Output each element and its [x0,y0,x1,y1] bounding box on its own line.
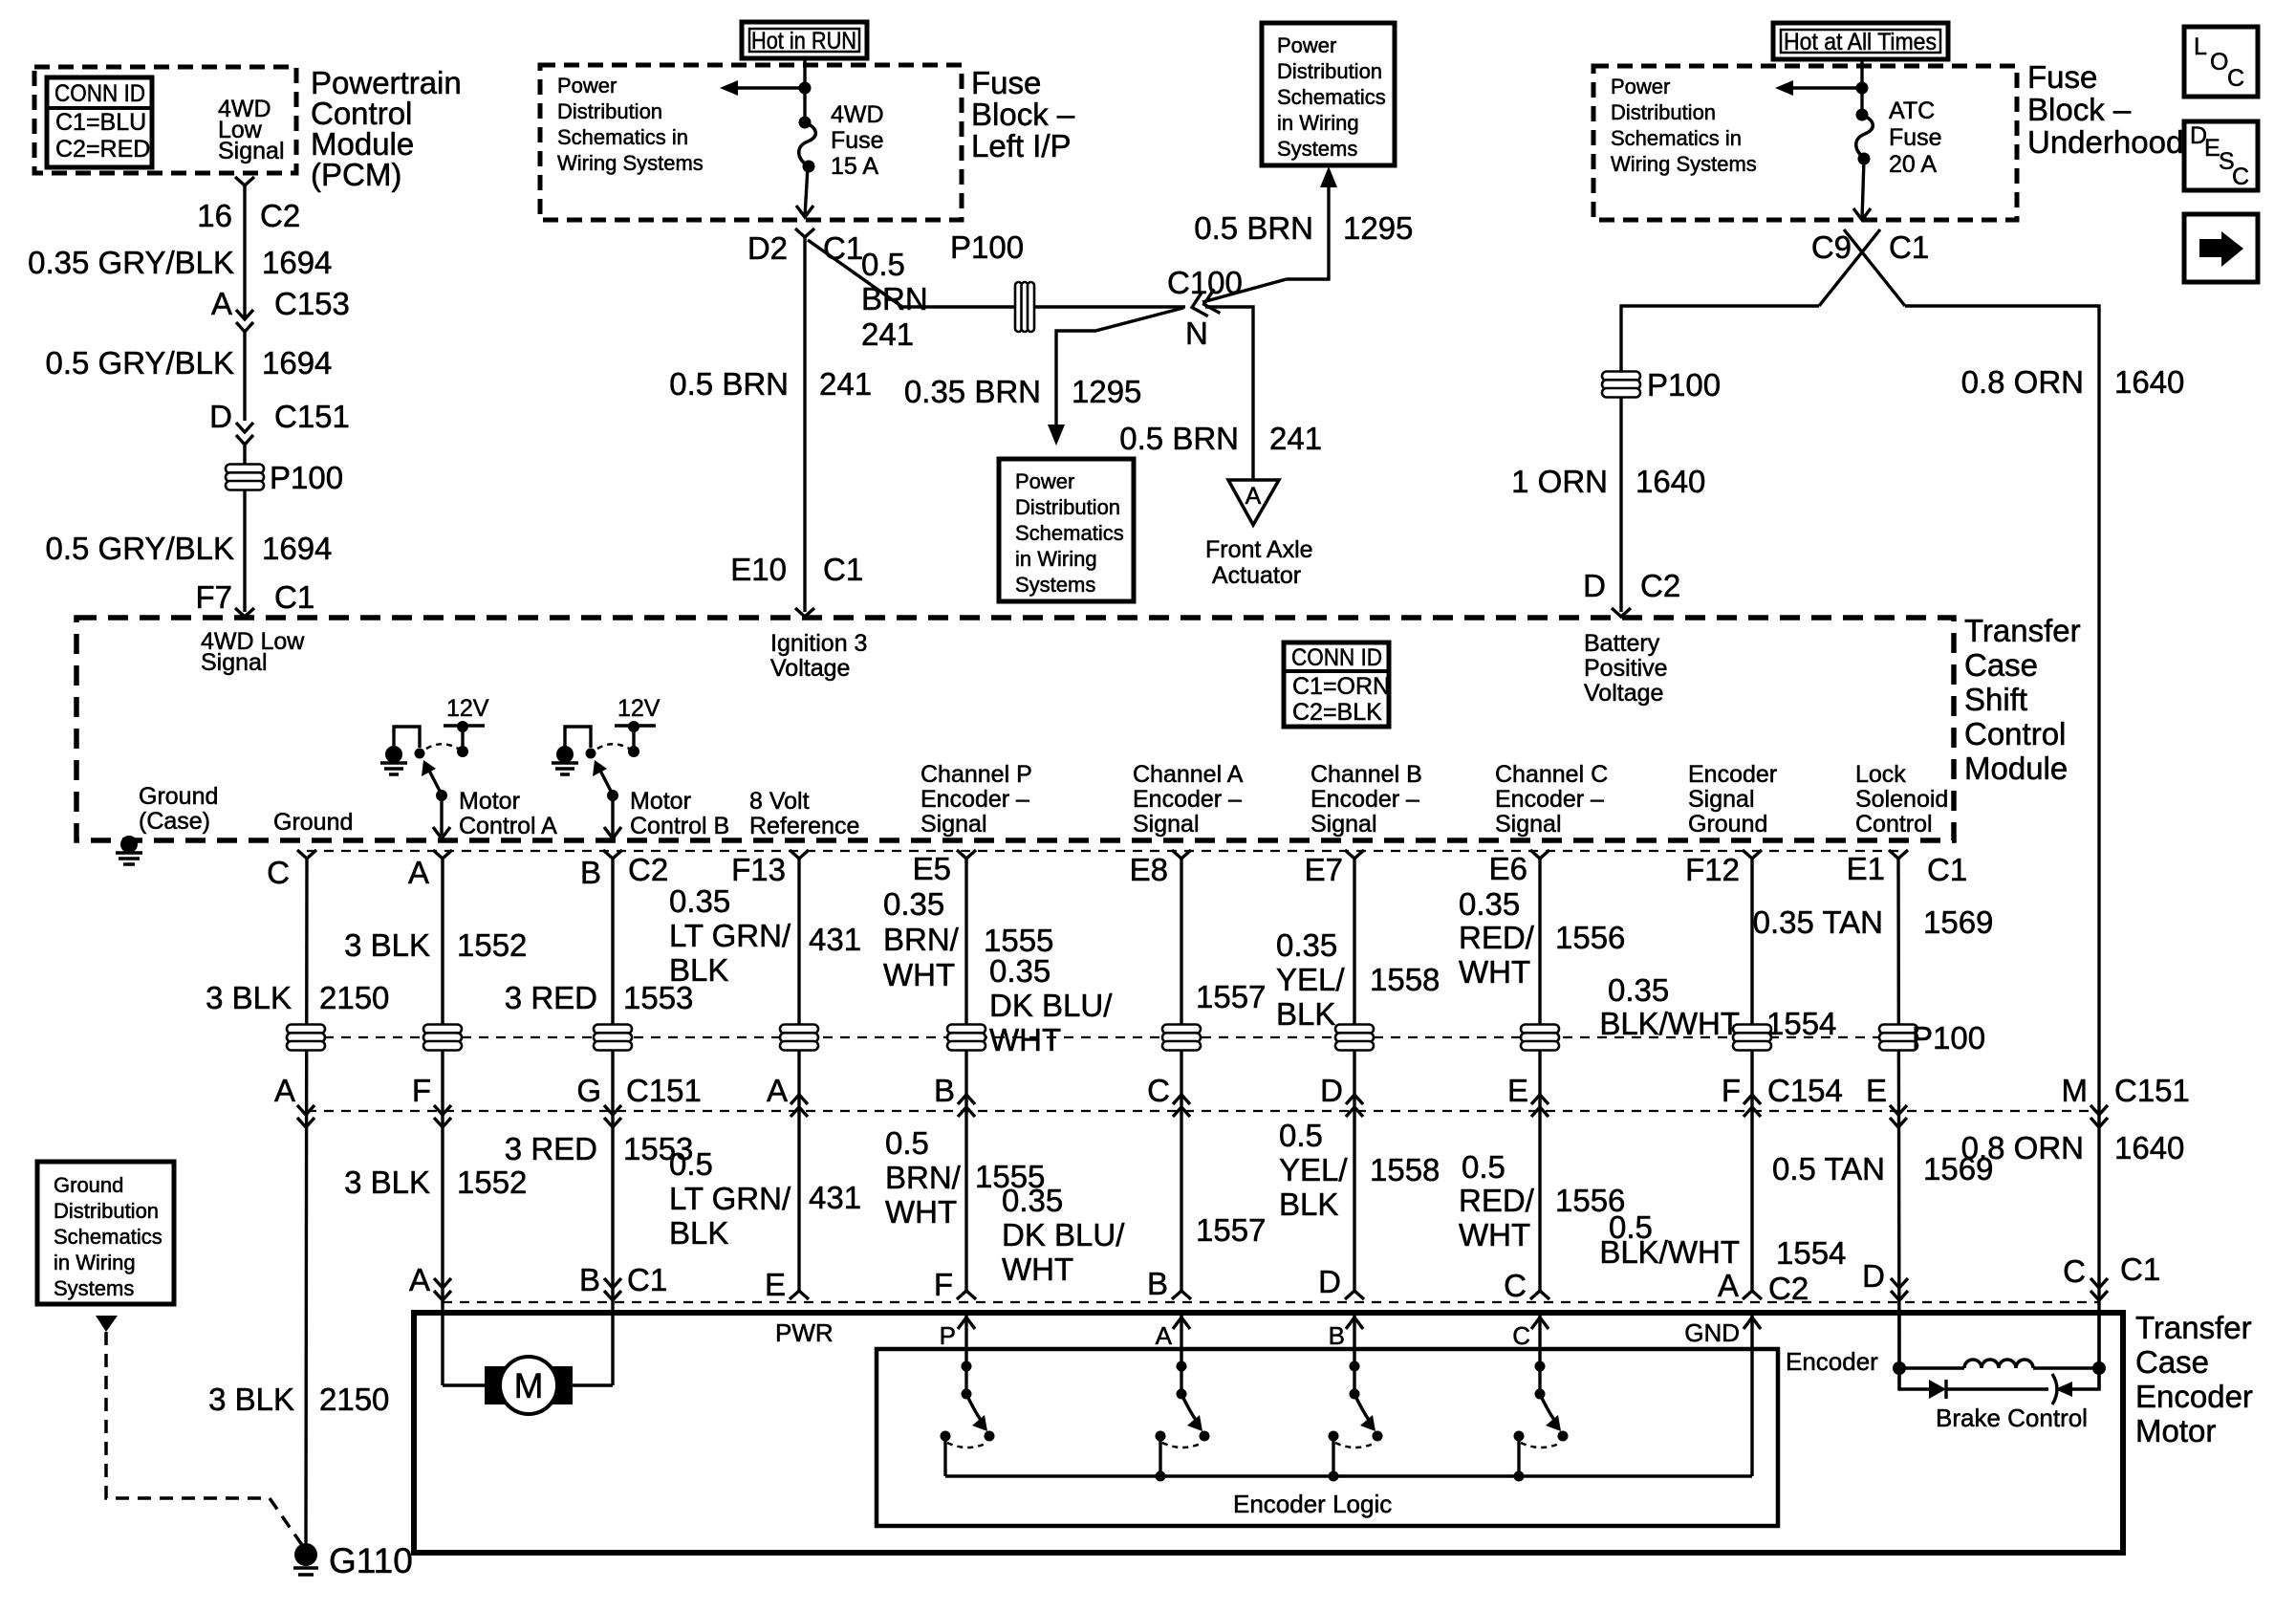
svg-text:P100: P100 [270,460,343,495]
svg-text:BRN/: BRN/ [885,1160,962,1195]
wire motor control B column [611,859,614,1385]
wire 1694 segment 2 [243,332,246,421]
Fuse Block Left I/P dashed box [540,65,962,220]
PCM module dashed box [34,67,296,173]
svg-text:D: D [1318,1264,1341,1299]
svg-text:Encoder: Encoder [2135,1379,2253,1414]
svg-text:BLK/WHT: BLK/WHT [1599,1006,1740,1041]
svg-text:1694: 1694 [262,245,332,280]
svg-text:C: C [1504,1268,1527,1303]
svg-text:C1: C1 [2120,1252,2160,1287]
Hot in RUN box [742,22,867,58]
svg-text:20 A: 20 A [1889,151,1937,178]
CONN ID box (PCM) [47,77,152,167]
module dashed box [76,618,1954,840]
svg-text:Signal: Signal [1310,811,1377,838]
svg-text:E5: E5 [913,851,951,886]
svg-text:Channel C: Channel C [1495,761,1608,788]
svg-text:C1: C1 [627,1262,667,1297]
Fuse Block Underhood dashed box [1593,66,2017,220]
svg-text:B: B [934,1073,955,1108]
svg-text:Distribution: Distribution [1015,495,1120,519]
wire from Hot in RUN [803,58,806,122]
svg-text:C2: C2 [1640,568,1680,603]
svg-text:N: N [1185,316,1208,351]
svg-text:3 BLK: 3 BLK [344,1165,430,1200]
svg-text:Systems: Systems [1015,573,1095,597]
svg-text:Signal: Signal [218,138,285,164]
svg-text:Systems: Systems [1277,137,1357,161]
motor lead A [443,1383,485,1386]
svg-text:1640: 1640 [2114,364,2184,400]
svg-text:1640: 1640 [1635,464,1705,499]
svg-text:Channel P: Channel P [921,761,1032,788]
svg-text:G: G [576,1073,601,1108]
svg-text:0.35: 0.35 [989,953,1051,989]
svg-text:D: D [1583,568,1606,603]
svg-text:0.35 BRN: 0.35 BRN [904,374,1041,409]
svg-text:WHT: WHT [1459,1217,1530,1252]
svg-text:Control B: Control B [630,813,729,839]
front axle actuator triangle [1228,480,1279,525]
svg-text:1694: 1694 [262,345,332,381]
svg-text:Case: Case [1964,647,2038,683]
arrow to power distribution (left) [1784,86,1862,89]
svg-text:Signal: Signal [1133,811,1200,838]
svg-text:Ground: Ground [54,1173,123,1197]
svg-text:8 Volt: 8 Volt [749,788,810,815]
svg-text:Brake Control: Brake Control [1936,1404,2088,1432]
svg-text:D: D [1320,1073,1343,1108]
svg-text:F: F [934,1267,953,1302]
svg-text:3 RED: 3 RED [505,980,597,1015]
svg-text:Signal: Signal [1688,786,1755,813]
svg-text:WHT: WHT [885,1194,957,1230]
wire channel P E5 column [964,859,967,1291]
svg-text:D: D [209,399,232,434]
svg-text:Signal: Signal [921,811,987,838]
svg-text:YEL/: YEL/ [1279,1152,1348,1187]
svg-text:Front Axle: Front Axle [1205,536,1313,563]
svg-text:CONN ID: CONN ID [54,80,145,107]
grommet E5 column [947,1025,986,1051]
grommet F12 column [1733,1025,1771,1051]
svg-text:1557: 1557 [1196,1212,1266,1248]
svg-text:LT GRN/: LT GRN/ [669,918,791,953]
svg-text:E: E [765,1267,786,1302]
junction dot [1856,82,1869,95]
svg-text:RED/: RED/ [1459,920,1535,955]
svg-text:0.8 ORN: 0.8 ORN [1961,1130,2084,1165]
svg-text:241: 241 [861,316,914,352]
LOC box [2184,27,2258,97]
svg-text:Fuse: Fuse [971,65,1041,100]
wire 241 down to E10 [803,237,806,612]
fuse 4WD 15A [799,117,812,129]
svg-text:0.5: 0.5 [669,1146,713,1182]
svg-text:B: B [580,855,601,890]
svg-text:B: B [1147,1266,1168,1301]
svg-text:Module: Module [1964,751,2068,786]
svg-text:0.5: 0.5 [1279,1118,1323,1153]
svg-text:C1: C1 [1927,852,1967,887]
svg-text:2150: 2150 [319,980,389,1015]
svg-text:Ignition 3: Ignition 3 [770,630,867,657]
svg-text:0.35: 0.35 [1608,972,1669,1008]
svg-text:Case: Case [2135,1344,2209,1380]
wire 8V ref F13 column [797,859,800,1291]
wire encoder ground F12 column [1750,859,1753,1291]
svg-text:Reference: Reference [749,813,859,839]
svg-text:F: F [412,1073,431,1108]
svg-text:C2: C2 [260,198,300,233]
svg-text:Battery: Battery [1584,630,1660,657]
svg-text:A: A [211,286,232,321]
svg-text:DK BLU/: DK BLU/ [989,988,1113,1023]
svg-text:in Wiring: in Wiring [54,1251,136,1274]
svg-text:C151: C151 [2114,1073,2190,1108]
svg-text:0.5: 0.5 [861,247,905,282]
grommet P100 (brn wire) [1015,282,1034,332]
motor lead B [573,1383,613,1386]
svg-text:E6: E6 [1489,851,1527,886]
svg-text:1557: 1557 [1196,979,1266,1014]
svg-text:in Wiring: in Wiring [1277,111,1359,135]
svg-text:BLK: BLK [669,1215,728,1251]
svg-text:C1: C1 [823,230,863,266]
arrow to power distribution (left) [728,86,805,89]
svg-text:A: A [409,1262,430,1297]
svg-text:Positive: Positive [1584,655,1668,682]
svg-text:B: B [579,1262,600,1297]
ground G110 [294,1543,317,1566]
svg-text:0.35: 0.35 [883,886,944,922]
svg-text:Schematics in: Schematics in [557,125,688,149]
svg-text:P100: P100 [1912,1020,1985,1056]
D lead down [1897,1313,1900,1389]
grommet F13 column [780,1025,818,1051]
Ground Distribution box [37,1162,174,1304]
svg-text:1640: 1640 [2114,1130,2184,1165]
svg-text:1295: 1295 [1343,210,1413,246]
svg-text:C1: C1 [1889,229,1929,265]
Hot at All Times box [1773,23,1948,59]
grommet P100 (battery wire) [1619,359,1622,612]
svg-text:(Case): (Case) [139,808,210,835]
svg-text:12V: 12V [617,695,661,722]
svg-text:in Wiring: in Wiring [1015,547,1097,571]
CONN ID box (module) [1284,642,1389,727]
svg-text:Control A: Control A [459,813,557,839]
svg-text:1552: 1552 [457,1165,527,1200]
svg-text:BLK: BLK [1279,1186,1338,1222]
connector C100 chevrons [1189,289,1220,319]
svg-text:Control: Control [1855,811,1933,838]
branch up to power distribution [1202,186,1329,302]
branch right to 0.8 ORN [1905,306,2099,1368]
svg-text:M: M [2062,1073,2089,1108]
grommet E1 column [1879,1025,1917,1051]
splice C9 / C1 X symbol [1819,229,1905,306]
svg-text:0.5: 0.5 [885,1125,929,1161]
svg-text:1694: 1694 [262,531,332,566]
svg-text:Block –: Block – [971,97,1075,132]
svg-text:(PCM): (PCM) [311,157,401,192]
svg-text:Motor: Motor [630,788,691,815]
power distribution solid box (top) [1262,23,1395,165]
wire from Hot at All Times [1860,59,1863,115]
thin dashed connector line [307,850,1898,852]
svg-text:Hot at All Times: Hot at All Times [1784,29,1937,55]
svg-text:A: A [274,1073,295,1108]
svg-text:Ground: Ground [139,783,218,810]
svg-text:Distribution: Distribution [1277,59,1382,83]
svg-text:E10: E10 [730,552,787,587]
svg-text:YEL/: YEL/ [1276,962,1345,997]
motor M symbol [485,1366,505,1404]
svg-text:C1=ORN: C1=ORN [1292,673,1390,700]
brake control coil path [1893,1361,1906,1375]
svg-text:Solenoid: Solenoid [1855,786,1948,813]
svg-text:0.5 BRN: 0.5 BRN [669,366,789,402]
wire from fuse to D2 [805,166,808,217]
svg-text:PWR: PWR [775,1318,834,1347]
svg-text:1552: 1552 [457,927,527,963]
wire channel A E8 column [1180,859,1182,1291]
svg-text:Ground: Ground [1688,811,1767,838]
svg-text:1 ORN: 1 ORN [1511,464,1608,499]
svg-text:F: F [1722,1073,1741,1108]
svg-text:WHT: WHT [1002,1252,1073,1287]
svg-text:Transfer: Transfer [1964,613,2081,648]
svg-text:Power: Power [1611,75,1670,98]
wire channel B E7 column [1353,859,1355,1291]
svg-text:Transfer: Transfer [2135,1310,2252,1345]
svg-text:1295: 1295 [1072,374,1141,409]
svg-text:0.8 ORN: 0.8 ORN [1961,364,2084,400]
svg-text:C: C [2063,1253,2086,1289]
svg-text:1554: 1554 [1776,1235,1846,1271]
svg-text:C154: C154 [1767,1073,1843,1108]
svg-text:0.5 GRY/BLK: 0.5 GRY/BLK [45,345,234,381]
svg-text:Encoder –: Encoder – [1495,786,1604,813]
fuse ATC 20A [1856,109,1869,121]
svg-text:1554: 1554 [1766,1006,1836,1041]
junction dot [799,82,812,95]
svg-text:Ground: Ground [273,809,353,836]
branch down 0.35 BRN 1295 [1056,308,1183,427]
brake control diode path [1899,1368,1929,1389]
svg-text:0.5 GRY/BLK: 0.5 GRY/BLK [45,531,234,566]
svg-text:L: L [2194,33,2207,60]
svg-text:C1: C1 [274,579,314,615]
svg-text:C2: C2 [628,852,668,887]
svg-text:D: D [1862,1258,1885,1294]
svg-text:0.35 GRY/BLK: 0.35 GRY/BLK [28,245,234,280]
svg-text:16: 16 [197,198,232,233]
wire lock solenoid E1 column [1898,859,1899,1368]
svg-text:E8: E8 [1130,852,1168,887]
svg-text:BRN: BRN [861,281,928,316]
svg-text:Distribution: Distribution [557,99,662,123]
svg-text:A: A [1718,1268,1739,1303]
svg-text:0.5 BRN: 0.5 BRN [1119,421,1239,456]
svg-text:Control: Control [1964,716,2066,751]
svg-text:O: O [2210,49,2228,76]
svg-text:1569: 1569 [1923,904,1993,940]
svg-text:Distribution: Distribution [1611,100,1716,124]
svg-text:P: P [940,1321,956,1350]
svg-text:Block –: Block – [2027,92,2132,127]
encoder logic bus [945,1474,1752,1477]
svg-text:Signal: Signal [201,649,268,676]
svg-text:Actuator: Actuator [1212,562,1301,589]
arrow below ground distribution box [96,1316,118,1332]
svg-text:C151: C151 [626,1073,702,1108]
dashed ground path [106,1332,302,1545]
svg-text:Channel B: Channel B [1310,761,1422,788]
svg-text:Power: Power [1015,469,1074,493]
svg-text:F13: F13 [731,852,786,887]
svg-text:BLK/WHT: BLK/WHT [1599,1234,1740,1270]
svg-text:Schematics: Schematics [1277,85,1386,109]
svg-text:E1: E1 [1847,851,1885,886]
svg-text:WHT: WHT [989,1022,1061,1057]
svg-text:Shift: Shift [1964,682,2027,717]
svg-text:Wiring Systems: Wiring Systems [557,151,704,175]
svg-text:D2: D2 [747,230,788,266]
svg-text:A: A [1245,483,1262,510]
svg-text:C: C [267,855,290,890]
grommet C column [287,1025,325,1051]
svg-text:Motor: Motor [459,788,520,815]
svg-text:0.35: 0.35 [669,883,730,919]
svg-text:1556: 1556 [1555,920,1625,955]
branch wire 241 to P100 [808,240,1185,307]
svg-text:12V: 12V [446,695,489,722]
svg-text:431: 431 [809,922,861,957]
svg-text:C2=RED: C2=RED [55,136,150,163]
svg-text:Signal: Signal [1495,811,1562,838]
svg-text:0.5 TAN: 0.5 TAN [1772,1151,1885,1186]
svg-text:15 A: 15 A [831,153,878,180]
svg-text:Distribution: Distribution [54,1199,159,1223]
svg-text:DK BLU/: DK BLU/ [1002,1217,1125,1252]
svg-text:RED/: RED/ [1459,1183,1535,1218]
svg-text:P100: P100 [1647,367,1721,403]
branch left to 1 ORN [1621,306,1819,359]
svg-text:C: C [1147,1073,1170,1108]
svg-text:3 BLK: 3 BLK [208,1382,294,1417]
svg-text:C: C [1512,1321,1530,1350]
svg-text:0.5: 0.5 [1462,1149,1505,1185]
svg-text:C151: C151 [274,399,350,434]
svg-text:Left I/P: Left I/P [971,128,1072,163]
svg-text:P100: P100 [950,229,1024,265]
wire motor control A column [441,859,444,1385]
svg-text:C1: C1 [823,552,863,587]
DESC box [2184,121,2258,190]
wire from fuse to C9 [1862,159,1864,220]
svg-text:Systems: Systems [54,1276,134,1300]
svg-text:F12: F12 [1685,852,1740,887]
power distribution solid box (mid) [999,459,1134,601]
svg-text:0.5 BRN: 0.5 BRN [1194,210,1313,246]
thin dashed line bottom [443,1301,2100,1303]
pin 16 C2 fork at PCM [235,177,254,186]
svg-text:3 RED: 3 RED [505,1131,597,1166]
svg-text:F7: F7 [195,579,232,615]
svg-text:Underhood: Underhood [2027,124,2183,160]
svg-text:Power: Power [557,74,617,98]
arrow box [2184,214,2258,282]
svg-text:3 BLK: 3 BLK [344,927,430,963]
svg-text:E: E [1866,1073,1887,1108]
svg-text:0.35 TAN: 0.35 TAN [1753,904,1883,940]
svg-text:ATC: ATC [1889,98,1935,124]
svg-text:Hot in RUN: Hot in RUN [751,28,856,54]
svg-text:Fuse: Fuse [1889,124,1942,151]
svg-text:Motor: Motor [2135,1413,2216,1448]
svg-text:1558: 1558 [1370,1152,1440,1187]
svg-text:241: 241 [819,366,872,402]
svg-text:C2: C2 [1768,1271,1809,1306]
svg-text:Channel A: Channel A [1133,761,1244,788]
wire 1694 segment 3 [243,445,246,612]
svg-text:A: A [1156,1321,1173,1350]
svg-text:WHT: WHT [883,957,955,992]
grommet E7 column [1335,1025,1374,1051]
svg-text:1558: 1558 [1370,962,1440,997]
grommet P100 (PCM wire) [226,465,264,490]
svg-text:Encoder Logic: Encoder Logic [1233,1490,1392,1518]
svg-text:Voltage: Voltage [1584,680,1663,707]
svg-text:431: 431 [809,1180,861,1215]
thin dashed line row 2 [307,1110,2099,1112]
svg-text:2150: 2150 [319,1382,389,1417]
svg-text:241: 241 [1269,421,1322,456]
grommet dashed line [307,1036,1898,1038]
grommet E8 column [1162,1025,1201,1051]
svg-text:BRN/: BRN/ [883,922,960,957]
grommet A column [423,1025,462,1051]
svg-text:E: E [1507,1073,1528,1108]
svg-text:Lock: Lock [1855,761,1906,788]
svg-text:0.35: 0.35 [1276,927,1337,963]
svg-text:A: A [408,855,429,890]
wire ground C column [306,859,307,1543]
wire channel C E6 column [1538,859,1541,1291]
svg-text:GND: GND [1684,1318,1740,1347]
svg-text:E7: E7 [1305,852,1343,887]
svg-text:4WD: 4WD [831,101,884,128]
svg-text:Power: Power [1277,33,1336,57]
motor box [414,1313,2123,1553]
svg-text:Schematics: Schematics [54,1225,162,1249]
svg-text:C2=BLK: C2=BLK [1292,699,1382,726]
svg-text:Encoder: Encoder [1786,1347,1878,1376]
svg-text:BLK: BLK [669,952,728,988]
svg-text:Encoder –: Encoder – [921,786,1029,813]
svg-text:C: C [2227,65,2244,92]
svg-text:B: B [1329,1321,1345,1350]
wire 1694 from PCM [243,185,246,319]
grommet E6 column [1521,1025,1559,1051]
grommet B column [594,1025,632,1051]
svg-text:3 BLK: 3 BLK [206,980,292,1015]
svg-text:Fuse: Fuse [831,127,884,154]
svg-text:Schematics in: Schematics in [1611,126,1742,150]
